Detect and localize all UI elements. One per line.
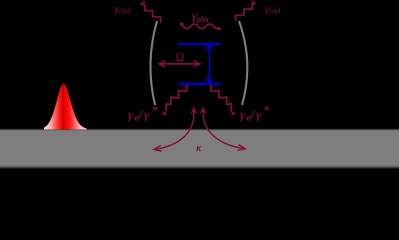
svg-text:κ: κ xyxy=(196,142,202,154)
energy level ground xyxy=(179,83,221,85)
energy level excited xyxy=(179,43,221,45)
phonon wave right xyxy=(211,86,236,116)
label gamma_e left xyxy=(128,105,158,123)
svg-text:γ: γ xyxy=(144,108,149,122)
svg-text:γ: γ xyxy=(256,108,261,122)
transition arrow xyxy=(206,45,212,83)
svg-text:*: * xyxy=(264,105,270,117)
pulse center line xyxy=(62,84,64,130)
cavity mirror left xyxy=(150,21,157,105)
svg-text:γ: γ xyxy=(128,108,133,122)
phonon wave left xyxy=(161,86,186,116)
radiative wave right xyxy=(236,1,256,22)
kappa arrow right xyxy=(201,108,246,150)
substrate slab xyxy=(0,128,399,169)
cavity mirror right xyxy=(239,21,247,105)
kappa arrow left xyxy=(154,108,196,151)
svg-text:γ: γ xyxy=(240,108,245,122)
svg-text:Ω: Ω xyxy=(175,50,184,64)
absorption wave xyxy=(180,23,221,31)
radiative wave left xyxy=(141,1,160,23)
label gamma_e right xyxy=(240,105,270,123)
svg-text:*: * xyxy=(152,105,158,117)
laser pulse xyxy=(44,84,87,130)
Rabi arrow xyxy=(159,61,200,67)
